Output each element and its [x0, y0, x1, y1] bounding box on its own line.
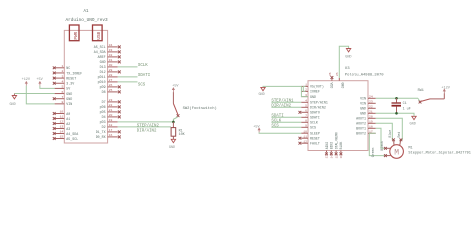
svg-text:SCS: SCS: [271, 124, 279, 128]
pin 21 pD5 (A1 right): [108, 111, 118, 113]
svg-text:D0_RX: D0_RX: [96, 135, 106, 139]
ground (below R1): [171, 139, 175, 142]
svg-text:10K: 10K: [179, 133, 186, 137]
svg-text:18: 18: [369, 125, 373, 129]
wire net SDATI (U3): [271, 116, 301, 118]
svg-text:BOUT1: BOUT1: [356, 127, 366, 131]
wire AOUT2 to motor Blue: [376, 123, 394, 139]
pin 13 A3 (A1 left): [55, 128, 65, 130]
svg-text:SCLK: SCLK: [138, 64, 148, 68]
svg-text:BLNK: BLNK: [339, 142, 343, 150]
wire BOUT2 to motor Green: [369, 133, 385, 155]
pin 29 D12 (A1 right): [108, 71, 118, 73]
svg-text:8: 8: [305, 119, 307, 123]
svg-text:24: 24: [369, 95, 373, 99]
svg-text:8: 8: [61, 100, 63, 104]
svg-text:GND: GND: [345, 55, 351, 59]
pin 17 BOUT2 (U3 right): [368, 132, 376, 134]
motor terminal Green (left-lower): [386, 155, 390, 157]
USB connector box: [93, 25, 103, 41]
svg-text:A2: A2: [66, 122, 70, 126]
svg-text:pD3: pD3: [100, 120, 106, 124]
pin 10 A0 (A1 left): [55, 113, 65, 115]
pin 16 D0_RX (A1 right): [108, 136, 118, 138]
pin 25 GND (U3 top): [338, 78, 340, 81]
pin 25 D8 (A1 right): [108, 91, 118, 93]
PWR connector box: [69, 25, 79, 41]
pin 14 A4_SDA (A1 left): [55, 133, 65, 135]
resistor R1: [172, 122, 174, 128]
svg-text:pD9: pD9: [100, 85, 106, 89]
svg-text:4: 4: [305, 99, 307, 103]
svg-text:VIN: VIN: [360, 97, 366, 101]
svg-text:20: 20: [369, 115, 373, 119]
svg-text:A4_SDA: A4_SDA: [66, 132, 78, 136]
svg-text:30: 30: [109, 63, 113, 67]
wire net SCLK (U3): [271, 121, 301, 123]
svg-text:11: 11: [60, 115, 64, 119]
wire +12V to VIN: [26, 86, 54, 104]
pin 9 SCS (U3 left): [301, 126, 308, 128]
svg-text:5: 5: [305, 104, 307, 108]
svg-text:11: 11: [303, 134, 307, 138]
pin 22 pD6 (A1 right): [108, 106, 118, 108]
pin 2 IOREF (U3 left): [301, 90, 308, 92]
svg-text:28: 28: [109, 73, 113, 77]
svg-text:BOUT2: BOUT2: [356, 132, 366, 136]
circuit schematic: Arduino UNO driving Pololu A4988 stepper driver and bipolar stepper motor: [0, 0, 474, 178]
svg-text:26: 26: [109, 83, 113, 87]
pin 22 GND (U3 right): [368, 107, 376, 109]
svg-text:A3: A3: [66, 127, 70, 131]
pin 28 pD11 (A1 right): [108, 76, 118, 78]
motor terminal Blue (top-left): [393, 141, 395, 146]
svg-text:STEP/AIN1: STEP/AIN1: [310, 101, 328, 105]
svg-text:4: 4: [61, 79, 63, 83]
svg-text:Arduino_UNO_rev3: Arduino_UNO_rev3: [66, 18, 109, 23]
svg-text:DIR/AIN2: DIR/AIN2: [310, 106, 326, 110]
svg-text:USB: USB: [97, 31, 102, 39]
svg-text:GND: GND: [9, 103, 15, 107]
svg-text:D8: D8: [102, 90, 106, 94]
U3 body outline: [308, 81, 368, 151]
svg-text:3: 3: [61, 74, 63, 78]
pin 23 D7 (A1 right): [108, 101, 118, 103]
svg-text:17: 17: [109, 128, 113, 132]
svg-text:21: 21: [369, 110, 373, 114]
svg-text:21: 21: [109, 108, 113, 112]
svg-text:20: 20: [109, 113, 113, 117]
svg-text:Red: Red: [397, 132, 401, 138]
svg-text:Stepper_Motor_bipolar_8427791: Stepper_Motor_bipolar_8427791: [408, 150, 471, 155]
wire GND net: [376, 113, 414, 116]
svg-text:26: 26: [329, 72, 332, 76]
svg-text:13: 13: [60, 125, 64, 129]
pin 7 SDATI (U3 left): [301, 116, 308, 118]
svg-text:10: 10: [303, 129, 307, 133]
svg-text:AIN2: AIN2: [325, 142, 329, 150]
pin 6 SDATO (U3 left): [301, 111, 308, 113]
svg-text:C1: C1: [403, 102, 407, 106]
svg-text:A5_SCL: A5_SCL: [66, 137, 78, 141]
svg-text:A5_SCL: A5_SCL: [94, 45, 106, 49]
svg-text:M1: M1: [408, 146, 412, 150]
svg-text:AOUT1: AOUT1: [356, 117, 366, 121]
svg-text:D4: D4: [102, 115, 106, 119]
svg-text:1: 1: [61, 64, 63, 68]
svg-text:SCLK: SCLK: [271, 119, 281, 123]
svg-text:SLEEP: SLEEP: [310, 132, 320, 136]
svg-text:10: 10: [60, 110, 64, 114]
pin 3 RESET (A1 left): [55, 77, 65, 79]
svg-text:15: 15: [335, 155, 338, 159]
svg-text:13: 13: [326, 155, 329, 159]
pin 24 VIN (U3 right): [368, 97, 376, 99]
pin 26 VDD (U3 top, unconnected): [331, 79, 333, 81]
svg-text:14: 14: [60, 130, 64, 134]
pin 17 D1_TX (A1 right): [108, 131, 118, 133]
svg-text:VDD: VDD: [329, 83, 333, 89]
pin 6 GND (A1 left): [55, 93, 65, 95]
svg-text:22: 22: [369, 105, 373, 109]
ground (left of U3): [261, 87, 265, 90]
junction STEP node: [172, 121, 175, 124]
wire net SDATI: [118, 76, 138, 78]
svg-text:Pololu_A4988_3070: Pololu_A4988_3070: [345, 72, 384, 77]
pin 32 AREF (A1 right): [108, 56, 118, 58]
svg-text:2: 2: [61, 69, 63, 73]
wire +5V to SLEEP: [259, 131, 301, 134]
junction GND/C1: [395, 112, 398, 115]
svg-text:STEP/AIN1: STEP/AIN1: [271, 98, 294, 103]
svg-text:18: 18: [109, 123, 113, 127]
svg-text:15: 15: [60, 135, 64, 139]
svg-text:+12V: +12V: [441, 87, 450, 91]
pin 23 VIN (U3 right): [368, 102, 376, 104]
pin 31 GND (A1 right): [108, 61, 118, 63]
svg-text:RESET: RESET: [66, 76, 76, 80]
arduino body outline: [64, 30, 107, 143]
pin 4 STEP/AIN1 (U3 left): [301, 101, 308, 103]
svg-text:33: 33: [109, 48, 113, 52]
pin 8 VIN (A1 left): [55, 103, 65, 105]
svg-text:16: 16: [340, 155, 343, 159]
svg-text:9: 9: [305, 124, 307, 128]
wire net STEP/AIN2: [118, 121, 174, 123]
svg-text:7: 7: [61, 95, 63, 99]
svg-text:19: 19: [369, 120, 373, 124]
svg-text:12: 12: [303, 139, 307, 143]
wire VIN net: [376, 97, 418, 99]
svg-text:Green: Green: [371, 148, 375, 158]
pin 18 D2 (A1 right): [108, 126, 118, 128]
pin 3 GND (U3 left): [301, 96, 308, 98]
svg-text:U3: U3: [345, 67, 350, 71]
svg-text:SDATI: SDATI: [310, 116, 320, 120]
svg-text:5V: 5V: [66, 87, 70, 91]
svg-text:GND: GND: [100, 60, 106, 64]
pin 10 SLEEP (U3 left): [301, 132, 308, 134]
svg-text:A1: A1: [66, 117, 70, 121]
jumper pins 1-2 (V5OUT to IOREF): [303, 86, 305, 91]
pin 8 SCLK (U3 left): [301, 121, 308, 123]
pin 7 GND (A1 left): [55, 98, 65, 100]
svg-text:Black: Black: [380, 141, 384, 151]
pin 14 BIN2 (U3 bottom, unconnected): [330, 151, 332, 153]
svg-text:pD10: pD10: [98, 80, 106, 84]
svg-text:SW2(Footswitch): SW2(Footswitch): [183, 106, 217, 111]
svg-text:AREF: AREF: [98, 55, 106, 59]
svg-text:D12: D12: [100, 70, 106, 74]
svg-text:12: 12: [60, 120, 64, 124]
svg-text:14: 14: [331, 155, 334, 159]
pin 4 3.3V (A1 left): [55, 82, 65, 84]
svg-text:STAL/REMV: STAL/REMV: [334, 132, 338, 149]
pin 27 pD10 (A1 right): [108, 81, 118, 83]
svg-text:SCLK: SCLK: [310, 121, 318, 125]
pin 26 pD9 (A1 right): [108, 86, 118, 88]
svg-text:VIN: VIN: [66, 102, 72, 106]
pin 2 TX_IOREF (A1 left): [55, 72, 65, 74]
svg-text:25: 25: [109, 88, 113, 92]
svg-text:SDATI: SDATI: [138, 74, 151, 78]
svg-text:23: 23: [369, 100, 373, 104]
svg-text:GND: GND: [310, 95, 316, 99]
svg-text:3.3V: 3.3V: [66, 82, 74, 86]
svg-text:23: 23: [109, 98, 113, 102]
pin 12 A2 (A1 left): [55, 123, 65, 125]
pin 30 D13 (A1 right): [108, 66, 118, 68]
wire net SCLK: [118, 66, 138, 68]
pin 12 FAULT (U3 left): [301, 142, 308, 144]
svg-text:19: 19: [109, 118, 113, 122]
svg-text:SCS: SCS: [138, 84, 146, 88]
pin 20 AOUT1 (U3 right): [368, 117, 376, 119]
motor terminal Black (left-upper): [386, 147, 390, 149]
svg-text:GND: GND: [169, 146, 175, 150]
svg-text:GND: GND: [360, 112, 366, 116]
wire net DIR/AIN2 (U3): [271, 106, 301, 108]
supply +12V (right): [443, 93, 445, 99]
switch SW2: [172, 92, 174, 103]
wire GND to pin 6: [14, 93, 54, 95]
svg-text:GND: GND: [66, 92, 72, 96]
pin 11 A1 (A1 left): [55, 118, 65, 120]
svg-text:DIR/AIN2: DIR/AIN2: [271, 103, 291, 108]
svg-text:FAULT: FAULT: [310, 142, 320, 146]
pin 19 AOUT2 (U3 right): [368, 122, 376, 124]
svg-text:GND: GND: [66, 97, 72, 101]
svg-text:SCS: SCS: [310, 126, 316, 130]
svg-text:34: 34: [109, 43, 113, 47]
svg-text:BIN2: BIN2: [330, 142, 334, 150]
pin 34 A5_SCL (A1 right): [108, 46, 118, 48]
pin 1 NC (A1 left): [55, 67, 65, 69]
svg-text:pD5: pD5: [100, 110, 106, 114]
svg-text:A4_SDA: A4_SDA: [94, 50, 106, 54]
svg-text:IOREF: IOREF: [310, 90, 320, 94]
svg-text:GND: GND: [410, 122, 416, 126]
svg-text:GND: GND: [258, 93, 264, 97]
svg-text:pD11: pD11: [98, 75, 106, 79]
ground (right): [412, 116, 416, 119]
svg-text:V5(OUT): V5(OUT): [310, 85, 324, 89]
svg-text:NC: NC: [66, 66, 70, 70]
svg-text:32: 32: [109, 53, 113, 57]
svg-text:22: 22: [109, 103, 113, 107]
svg-text:D13: D13: [100, 65, 106, 69]
svg-text:STEP/AIN2: STEP/AIN2: [137, 123, 160, 128]
pin 21 GND (U3 right): [368, 112, 376, 114]
pin 20 D4 (A1 right): [108, 116, 118, 118]
svg-text:pD6: pD6: [100, 105, 106, 109]
svg-text:D2: D2: [102, 125, 106, 129]
ground (above U3): [346, 49, 350, 52]
wire net SCS: [118, 81, 138, 83]
wire SW2 to junction: [173, 117, 177, 122]
svg-text:D1_TX: D1_TX: [96, 130, 106, 134]
pin 5 DIR/AIN2 (U3 left): [301, 106, 308, 108]
junction VIN/C1: [395, 97, 398, 100]
svg-text:PWR: PWR: [74, 31, 79, 39]
wire U3 top GND to ground: [339, 46, 348, 78]
svg-text:27: 27: [109, 78, 113, 82]
svg-text:16: 16: [109, 133, 113, 137]
motor M1 circle: [390, 145, 404, 159]
svg-text:AOUT2: AOUT2: [356, 122, 366, 126]
svg-text:5: 5: [61, 85, 63, 89]
wire +5V to 5V pin: [40, 86, 55, 89]
pin 16 BLNK (U3 bottom, unconnected): [340, 151, 342, 153]
wire net STEP/AIN1: [271, 101, 301, 103]
svg-text:VIN: VIN: [360, 102, 366, 106]
svg-text:TX_IOREF: TX_IOREF: [66, 71, 82, 75]
pin 13 AIN2 (U3 bottom, unconnected): [326, 151, 328, 153]
svg-text:SW1: SW1: [418, 89, 424, 93]
svg-text:31: 31: [109, 58, 113, 62]
svg-text:M: M: [394, 148, 399, 157]
svg-text:DIR/AIN2: DIR/AIN2: [137, 128, 157, 133]
wire U3 GND pin3 to ground: [263, 86, 308, 96]
pin 5 5V (A1 left): [55, 87, 65, 89]
motor terminal Red (top-right): [399, 141, 402, 146]
svg-text:7: 7: [305, 114, 307, 118]
svg-text:29: 29: [109, 68, 113, 72]
svg-text:Blue: Blue: [388, 130, 392, 138]
wire net DIR/AIN2: [118, 126, 171, 128]
ground (left): [13, 94, 15, 96]
pin 19 pD3 (A1 right): [108, 121, 118, 123]
pin 11 RESET (U3 left): [301, 137, 308, 139]
svg-text:GND: GND: [341, 83, 345, 89]
wire AOUT1 to motor Red: [376, 118, 403, 139]
svg-text:GND: GND: [360, 107, 366, 111]
svg-text:SDATO: SDATO: [310, 111, 320, 115]
svg-text:1 uF: 1 uF: [403, 107, 411, 111]
pin 15 A5_SCL (A1 left): [55, 138, 65, 140]
svg-text:6: 6: [305, 109, 307, 113]
svg-text:25: 25: [336, 72, 339, 76]
wire BOUT1 to motor Black: [376, 128, 385, 148]
svg-text:A1: A1: [84, 10, 89, 14]
svg-text:6: 6: [61, 90, 63, 94]
pin 1 V5(OUT) (U3 left): [301, 85, 308, 87]
wire net SCS (U3): [271, 126, 301, 128]
pin 33 A4_SDA (A1 right): [108, 51, 118, 53]
svg-text:RESET: RESET: [310, 137, 320, 141]
svg-text:D7: D7: [102, 100, 106, 104]
pin 18 BOUT1 (U3 right): [368, 127, 376, 129]
pin 15 STAL/REMV (U3 bottom, unconnected): [335, 151, 337, 153]
svg-text:SDATI: SDATI: [271, 114, 284, 118]
svg-text:A0: A0: [66, 112, 70, 116]
